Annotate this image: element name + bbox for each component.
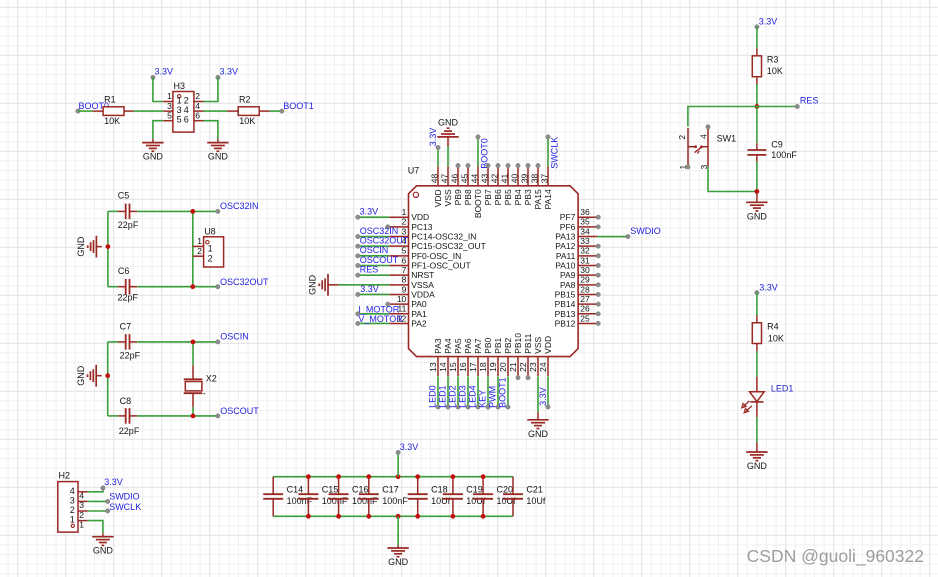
svg-text:H3: H3 (174, 81, 186, 91)
svg-text:VDDA: VDDA (411, 289, 435, 299)
pin numbers of SW1 (677, 134, 709, 170)
svg-text:2: 2 (677, 135, 687, 140)
unconnected pin 22 dot (526, 376, 530, 380)
power net 3.3V at U7 pin9 (356, 284, 379, 297)
svg-text:3.3V: 3.3V (400, 442, 419, 452)
value 10K of R3 (767, 66, 783, 76)
label C7 (120, 321, 132, 331)
pin numbers of H2 (79, 491, 84, 530)
svg-text:13: 13 (428, 362, 438, 372)
capacitor C18 (408, 477, 428, 517)
svg-text:C9: C9 (771, 139, 783, 149)
svg-text:2: 2 (195, 91, 200, 101)
svg-text:SW1: SW1 (717, 133, 737, 143)
svg-text:40: 40 (510, 173, 520, 183)
svg-text:PB3: PB3 (523, 189, 533, 205)
svg-text:OSCIN: OSCIN (220, 331, 249, 341)
value 10Uf of C19 (466, 496, 486, 506)
svg-text:34: 34 (580, 226, 590, 236)
ground of reset circuit (746, 192, 767, 222)
svg-text:VDD: VDD (433, 189, 443, 207)
svg-text:23: 23 (528, 362, 538, 372)
svg-text:5: 5 (167, 110, 172, 120)
svg-text:28: 28 (580, 284, 590, 294)
wire I_MOTOR at U7 pin11 (358, 313, 390, 315)
label C6 (118, 266, 130, 276)
svg-text:22pF: 22pF (120, 351, 141, 361)
label X2 (206, 374, 217, 384)
svg-text:44: 44 (470, 173, 480, 183)
connector H2 (58, 482, 88, 532)
ground at U7 pin8 (308, 274, 339, 296)
capacitor C6 (108, 279, 218, 295)
svg-text:C19: C19 (466, 485, 483, 495)
svg-text:10K: 10K (768, 333, 784, 343)
svg-text:PB8: PB8 (463, 189, 473, 205)
resistor R1 (93, 107, 134, 116)
svg-text:22pF: 22pF (119, 426, 140, 436)
value 10K of R2 (239, 116, 255, 126)
svg-text:10: 10 (397, 294, 407, 304)
svg-text:BOOT0: BOOT0 (473, 189, 483, 218)
svg-text:U8: U8 (204, 227, 216, 237)
svg-text:17: 17 (468, 362, 478, 372)
power flag 3.3V at H2 (101, 477, 123, 490)
svg-text:PA4: PA4 (443, 338, 453, 354)
svg-text:X2: X2 (206, 374, 217, 384)
svg-text:3: 3 (167, 101, 172, 111)
svg-text:39: 39 (520, 173, 530, 183)
svg-text:PF0-OSC_IN: PF0-OSC_IN (411, 251, 461, 261)
svg-text:1: 1 (70, 515, 75, 525)
svg-text:PB6: PB6 (493, 189, 503, 205)
label U8 (204, 227, 216, 237)
svg-text:GND: GND (308, 274, 318, 295)
unconnected top pin dots (456, 163, 540, 167)
net label RES (356, 265, 379, 278)
svg-text:GND: GND (528, 429, 549, 439)
svg-text:2: 2 (402, 217, 407, 227)
svg-text:6: 6 (184, 115, 189, 125)
wire R1 to H3 pin3 (134, 110, 164, 112)
pin names of H2 (70, 486, 75, 525)
svg-text:PF1-OSC_OUT: PF1-OSC_OUT (411, 261, 471, 271)
svg-text:R3: R3 (767, 55, 779, 65)
label C5 (118, 191, 130, 201)
MCU side pin names (411, 212, 575, 328)
capacitor C9 (747, 107, 766, 192)
svg-text:R2: R2 (239, 95, 251, 105)
value 22pF of C6 (118, 292, 139, 302)
capacitor C7 (108, 334, 218, 350)
svg-text:SWDIO: SWDIO (630, 226, 661, 236)
polarity mark of X2 (203, 389, 206, 399)
unconnected right pin dots (596, 215, 600, 326)
svg-text:PA12: PA12 (555, 241, 575, 251)
wire LED1 at U7 pin14 (447, 377, 449, 407)
value 10Uf of C18 (431, 496, 451, 506)
pin numbers of U8 (197, 236, 202, 256)
wire H2 pin3 to SWDIO (88, 500, 108, 502)
svg-text:100nF: 100nF (382, 496, 408, 506)
svg-text:10K: 10K (767, 66, 783, 76)
svg-text:C20: C20 (497, 485, 514, 495)
svg-text:GND: GND (143, 152, 164, 162)
wire SWDIO at U7 pin34 (597, 236, 628, 238)
net label LED2 (447, 385, 460, 409)
power flag 3.3V of reset (755, 16, 778, 29)
value 100nF of C9 (771, 150, 797, 160)
label C21 (526, 485, 543, 495)
svg-text:15: 15 (448, 362, 458, 372)
pin names of U8 (208, 244, 213, 264)
value 10K of R4 (768, 333, 784, 343)
label R4 (767, 322, 779, 332)
net label OSC32IN (356, 226, 399, 239)
label C19 (466, 485, 483, 495)
svg-text:3: 3 (177, 105, 182, 115)
wire bank to GND (397, 516, 399, 545)
svg-text:3.3V: 3.3V (759, 283, 778, 293)
svg-text:35: 35 (580, 217, 590, 227)
svg-text:PF6: PF6 (560, 222, 576, 232)
junctions on capacitor bank rails (306, 474, 486, 518)
svg-text:PB1: PB1 (493, 337, 503, 353)
LED LED1 (742, 377, 765, 418)
svg-text:10K: 10K (104, 116, 120, 126)
svg-text:1: 1 (177, 95, 182, 105)
capacitor C21 (503, 477, 523, 517)
svg-text:5: 5 (177, 115, 182, 125)
svg-text:3.3V: 3.3V (360, 207, 379, 217)
svg-text:20: 20 (498, 362, 508, 372)
label R1 (104, 95, 116, 105)
value 22pF of C7 (120, 351, 141, 361)
svg-text:7: 7 (402, 265, 407, 275)
svg-text:LED0: LED0 (427, 385, 437, 408)
power flag 3.3V of bank (396, 442, 418, 454)
wire OSC32IN at U7 pin3 (358, 236, 390, 238)
wire U7 pin23 to GND (537, 377, 539, 413)
svg-text:RES: RES (360, 265, 379, 275)
svg-text:5: 5 (402, 246, 407, 256)
wire BOOT0 at U7 pin44 (477, 137, 479, 166)
net port BOOT0 (76, 101, 109, 114)
wire R2 to BOOT1 (270, 110, 282, 112)
power net 3.3V at U7 pin48 (428, 128, 440, 150)
svg-text:VSS: VSS (443, 189, 453, 206)
svg-text:KEY: KEY (477, 390, 487, 408)
svg-text:OSCOUT: OSCOUT (220, 406, 259, 416)
svg-text:19: 19 (488, 362, 498, 372)
wire bottom rail of capacitor bank (273, 515, 513, 517)
svg-text:OSC32IN: OSC32IN (220, 201, 259, 211)
resistor R3 (752, 49, 761, 85)
svg-text:OSCOUT: OSCOUT (360, 255, 399, 265)
wire 3.3V to H3 pin2 (204, 77, 218, 101)
net label KEY (477, 390, 490, 409)
svg-text:GND: GND (208, 152, 229, 162)
svg-text:29: 29 (580, 275, 590, 285)
unconnected SW1 pin1 dot (686, 165, 690, 169)
svg-text:38: 38 (530, 173, 540, 183)
svg-text:3.3V: 3.3V (759, 16, 778, 26)
svg-text:SWCLK: SWCLK (109, 502, 141, 512)
svg-text:I_MOTOR: I_MOTOR (358, 304, 399, 314)
wire 3.3V to U7 pin48 (437, 148, 439, 167)
svg-text:OSC32OUT: OSC32OUT (220, 277, 269, 287)
net label OSCOUT (356, 255, 399, 268)
capacitor C20 (473, 477, 493, 517)
ground left of OSC32 (76, 236, 102, 258)
net label OSCIN (356, 245, 389, 258)
svg-text:4: 4 (195, 101, 200, 111)
junction on left rail (106, 244, 111, 249)
svg-text:100nF: 100nF (352, 496, 378, 506)
value 10K of R1 (104, 116, 120, 126)
capacitor C19 (443, 477, 463, 517)
switch SW1 (688, 128, 708, 167)
svg-text:PB15: PB15 (555, 289, 576, 299)
svg-text:PA0: PA0 (411, 299, 427, 309)
capacitor C16 (329, 477, 349, 517)
power net 3.3V at U7 pin1 (356, 207, 379, 220)
svg-text:1: 1 (402, 207, 407, 217)
wire RES at U7 pin7 (358, 274, 390, 276)
net label LED1 (437, 385, 450, 409)
svg-text:C8: C8 (120, 396, 132, 406)
resistor R2 (227, 107, 269, 116)
wire OSCIN at U7 pin5 (358, 255, 390, 257)
net label LED0 (427, 385, 440, 409)
svg-text:GND: GND (747, 461, 768, 471)
label C20 (497, 485, 514, 495)
wire V_MOTOR at U7 pin12 (358, 322, 390, 324)
svg-text:46: 46 (450, 173, 460, 183)
svg-text:GND: GND (747, 211, 768, 221)
MCU top and bottom pin numbers (428, 173, 549, 371)
svg-text:PC13: PC13 (411, 222, 433, 232)
net label LED4 (467, 385, 480, 409)
svg-text:PC15-OSC32_OUT: PC15-OSC32_OUT (411, 241, 486, 251)
wire SWCLK at U7 pin37 (547, 137, 549, 166)
svg-text:PB13: PB13 (555, 309, 576, 319)
ground under LED1 (746, 443, 767, 471)
svg-text:3.3V: 3.3V (104, 477, 123, 487)
junction X2 top (191, 340, 196, 345)
wire U8 vertical (192, 211, 194, 286)
svg-text:25: 25 (580, 313, 590, 323)
svg-text:PB0: PB0 (483, 337, 493, 353)
svg-text:10Uf: 10Uf (526, 496, 546, 506)
svg-text:PB10: PB10 (513, 333, 523, 354)
svg-text:GND: GND (438, 118, 459, 128)
svg-text:100nF: 100nF (322, 496, 348, 506)
svg-text:BOOT1: BOOT1 (497, 377, 507, 408)
svg-text:CSDN @guoli_960322: CSDN @guoli_960322 (747, 546, 924, 567)
svg-text:18: 18 (478, 362, 488, 372)
power flag 3.3V right of H3 (216, 66, 238, 79)
svg-text:LED1: LED1 (437, 385, 447, 408)
wire LED1 to GND (756, 417, 758, 442)
value 100nF of C17 (382, 496, 408, 506)
svg-text:GND: GND (76, 365, 86, 386)
wire H3 pin5 to GND (153, 121, 163, 140)
svg-text:30: 30 (580, 265, 590, 275)
net label V_MOTOR (356, 314, 404, 326)
ground under U7 pin23 (527, 412, 548, 439)
svg-text:C14: C14 (287, 485, 304, 495)
svg-text:R4: R4 (767, 322, 779, 332)
svg-text:SWCLK: SWCLK (549, 137, 559, 169)
wire OSC32OUT at U7 pin4 (358, 245, 390, 247)
svg-text:37: 37 (540, 173, 550, 183)
svg-text:OSC32IN: OSC32IN (360, 226, 399, 236)
net port OSC32OUT (216, 277, 269, 289)
MCU top and bottom pin names (433, 189, 553, 354)
svg-text:3.3V: 3.3V (220, 66, 239, 76)
svg-text:PA5: PA5 (453, 338, 463, 354)
label C14 (287, 485, 304, 495)
net label SWDIO (626, 226, 661, 239)
value 100nF of C16 (352, 496, 378, 506)
svg-text:PB4: PB4 (513, 189, 523, 205)
label C8 (120, 396, 132, 406)
label C17 (382, 485, 399, 495)
svg-text:NRST: NRST (411, 270, 434, 280)
pin numbers of H3 (167, 91, 200, 120)
label C16 (352, 485, 369, 495)
net label OSC32OUT (356, 236, 409, 249)
wire U7 pin47 to GND (447, 147, 449, 167)
wire RES node to SW1 (688, 107, 757, 127)
svg-text:PB11: PB11 (523, 333, 533, 353)
capacitor C14 (263, 477, 283, 517)
svg-text:3.3V: 3.3V (360, 284, 379, 294)
svg-text:C16: C16 (352, 485, 369, 495)
net port SWDIO (106, 491, 140, 503)
wire H3 pin4 to R2 (204, 110, 228, 112)
svg-text:6: 6 (195, 110, 200, 120)
svg-text:U7: U7 (408, 166, 420, 176)
MCU top and bottom pin stubs (438, 166, 548, 376)
svg-text:2: 2 (208, 253, 213, 263)
wire OSCOUT at U7 pin6 (358, 265, 390, 267)
svg-text:C7: C7 (120, 321, 132, 331)
svg-text:100nF: 100nF (771, 150, 797, 160)
unconnected SW1 pin4 dot (706, 125, 710, 129)
ground under H3 pin6 (207, 139, 228, 161)
svg-text:36: 36 (580, 207, 590, 217)
svg-text:PF7: PF7 (560, 212, 576, 222)
MCU U7 outline (409, 186, 579, 357)
value 10Uf of C20 (497, 496, 517, 506)
value 22pF of C5 (118, 220, 139, 230)
svg-text:BOOT1: BOOT1 (283, 101, 314, 111)
svg-text:LED3: LED3 (457, 385, 467, 408)
power flag 3.3V of LED branch (755, 283, 778, 295)
svg-text:V_MOTOR: V_MOTOR (358, 314, 403, 324)
svg-text:27: 27 (580, 294, 590, 304)
svg-text:PA8: PA8 (560, 280, 576, 290)
svg-text:VSS: VSS (533, 336, 543, 353)
svg-text:C15: C15 (322, 485, 339, 495)
svg-text:48: 48 (430, 173, 440, 183)
svg-text:1: 1 (208, 244, 213, 254)
svg-text:RES: RES (800, 96, 819, 106)
wire 3.3V to R3 (756, 27, 758, 49)
unconnected pin 21 dot (516, 376, 520, 380)
svg-text:8: 8 (402, 275, 407, 285)
svg-text:3.3V: 3.3V (428, 128, 438, 147)
svg-text:LED4: LED4 (467, 385, 477, 408)
svg-text:4: 4 (698, 134, 708, 139)
svg-text:6: 6 (402, 255, 407, 265)
pin names of H3 (177, 95, 189, 124)
svg-text:21: 21 (508, 362, 518, 372)
svg-text:VSSA: VSSA (411, 280, 434, 290)
svg-text:3: 3 (70, 495, 75, 505)
svg-text:PA7: PA7 (473, 338, 483, 354)
wire RES node to port (757, 106, 797, 108)
svg-text:2: 2 (184, 95, 189, 105)
wire SW1 pin3 to GND node (708, 167, 757, 192)
svg-text:C5: C5 (118, 191, 130, 201)
label SW1 (717, 133, 737, 143)
wire OSC left rail (107, 342, 109, 416)
junction U8 bottom (190, 284, 195, 289)
label R3 (767, 55, 779, 65)
label C18 (431, 485, 448, 495)
svg-text:H2: H2 (59, 471, 71, 481)
svg-text:9: 9 (402, 284, 407, 294)
svg-text:PA9: PA9 (560, 270, 576, 280)
svg-text:GND: GND (388, 557, 409, 567)
wire H2 pin4 to 3.3V (88, 488, 103, 492)
svg-text:10K: 10K (239, 116, 255, 126)
capacitor C8 (108, 408, 218, 424)
wire R4 to LED1 (756, 351, 758, 377)
svg-text:PB9: PB9 (453, 189, 463, 205)
svg-text:2: 2 (79, 510, 84, 520)
wire LED4 at U7 pin17 (477, 377, 479, 407)
value 100nF of C14 (287, 496, 313, 506)
svg-text:1: 1 (167, 91, 172, 101)
unconnected pin 2 dot (386, 225, 390, 229)
svg-text:PB14: PB14 (555, 299, 576, 309)
junction X2 bottom (191, 414, 196, 419)
wire H2 pin2 to SWCLK (88, 510, 108, 512)
svg-text:4: 4 (184, 105, 189, 115)
label H3 (174, 81, 186, 91)
MCU side pin stubs (389, 217, 597, 323)
net label BOOT1 (497, 377, 510, 409)
net label BOOT0 top (476, 135, 490, 169)
svg-text:PA10: PA10 (555, 261, 575, 271)
svg-text:C17: C17 (382, 485, 399, 495)
svg-text:3.3V: 3.3V (538, 387, 548, 406)
resistor R4 (752, 316, 761, 352)
crystal X2 (184, 342, 203, 416)
label R2 (239, 95, 251, 105)
svg-text:LED1: LED1 (771, 383, 794, 393)
net port RES (795, 96, 818, 109)
svg-text:PA13: PA13 (555, 232, 575, 242)
wire LED2 at U7 pin15 (457, 377, 459, 407)
net port OSCOUT (216, 406, 260, 418)
net label LED3 (457, 385, 470, 409)
svg-text:GND: GND (76, 236, 86, 257)
